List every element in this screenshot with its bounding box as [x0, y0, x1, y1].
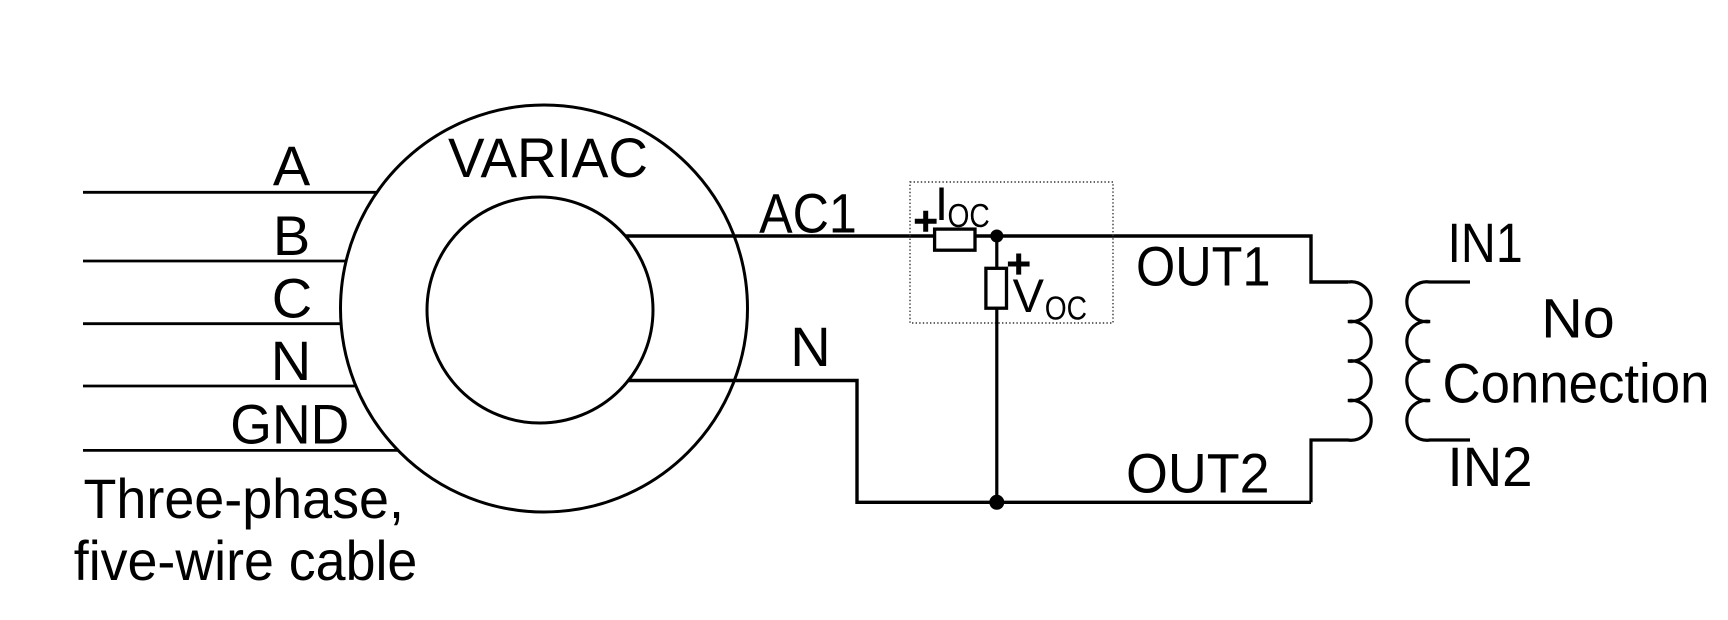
svg-text:OUT1: OUT1	[1136, 234, 1271, 297]
plus sign for VOC	[1008, 254, 1030, 275]
svg-text:B: B	[273, 204, 310, 267]
svg-text:OC: OC	[948, 197, 990, 234]
svg-text:N: N	[271, 329, 311, 392]
variac T1 outer circle	[341, 105, 748, 512]
svg-text:V: V	[1013, 269, 1045, 322]
svg-text:five-wire cable: five-wire cable	[74, 529, 418, 592]
svg-text:IN1: IN1	[1448, 211, 1523, 274]
current sense resistor (IOC shunt)	[935, 229, 975, 250]
svg-text:GND: GND	[230, 392, 349, 455]
vertical sense branch wire	[995, 236, 998, 502]
wire GND	[83, 449, 398, 452]
transformer secondary coil L2	[1407, 282, 1470, 440]
svg-text:Three-phase,: Three-phase,	[84, 467, 405, 530]
transformer primary coil L1	[1311, 282, 1371, 503]
wire neutral N	[83, 385, 356, 388]
measurement dashed box	[910, 182, 1113, 323]
svg-text:OUT2: OUT2	[1126, 442, 1270, 505]
svg-text:A: A	[273, 134, 311, 197]
svg-text:OC: OC	[1045, 290, 1087, 327]
svg-text:VARIAC: VARIAC	[448, 126, 648, 189]
voltage sense resistor (VOC)	[986, 268, 1007, 308]
wire phase C	[83, 322, 341, 325]
svg-text:C: C	[272, 267, 312, 330]
svg-text:No: No	[1541, 287, 1615, 350]
svg-text:I: I	[935, 177, 948, 230]
wire AC1 from variac wiper to coil top	[625, 236, 1348, 282]
wire phase A	[83, 191, 377, 194]
junction node at AC1 rail	[990, 230, 1003, 243]
svg-text:N: N	[790, 315, 830, 378]
svg-text:AC1: AC1	[759, 182, 857, 245]
svg-text:Connection: Connection	[1443, 352, 1710, 415]
wire phase B	[83, 260, 346, 263]
plus sign for IOC	[915, 211, 937, 232]
variac T1 inner circle	[427, 197, 653, 423]
junction node at bottom rail	[989, 495, 1004, 510]
svg-text:IN2: IN2	[1448, 435, 1533, 498]
wire N from variac to bottom rail	[628, 381, 1311, 503]
